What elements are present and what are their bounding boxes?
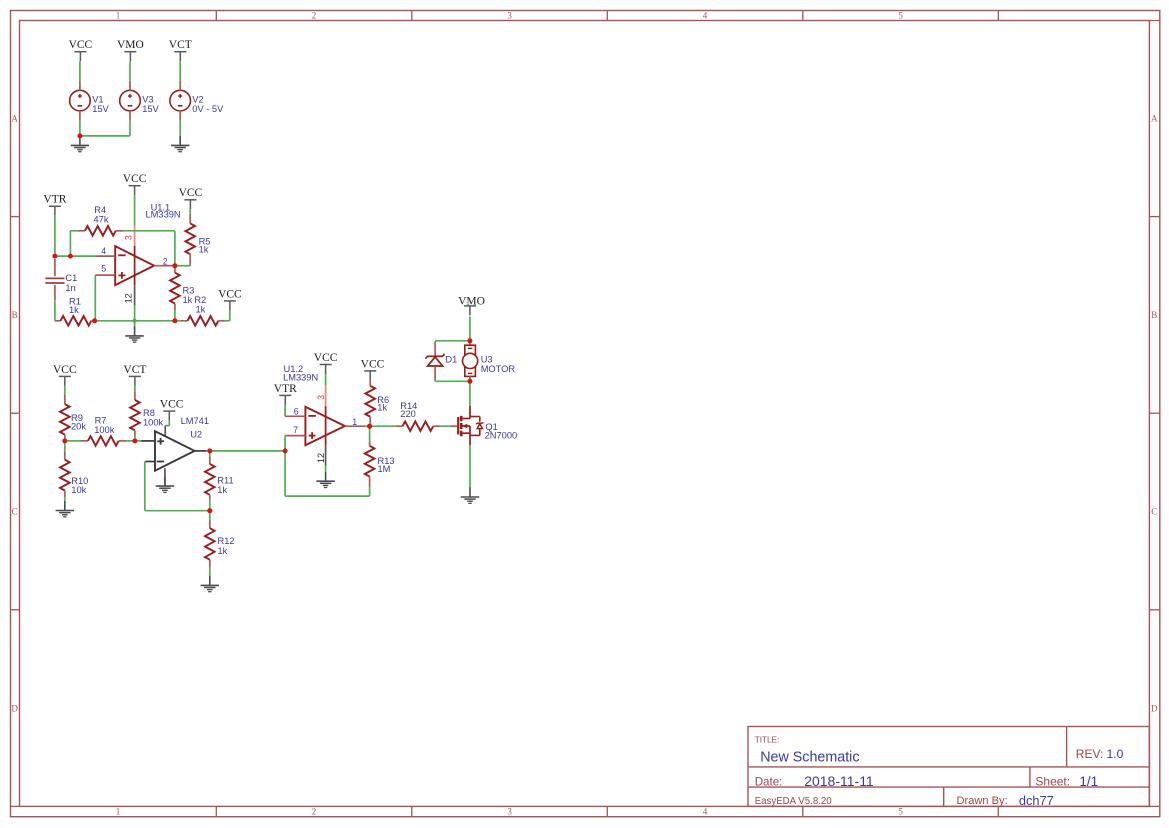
svg-text:1k: 1k bbox=[199, 245, 209, 255]
junction dot R3/R2 node bbox=[172, 318, 177, 323]
svg-text:2018-11-11: 2018-11-11 bbox=[804, 773, 874, 789]
svg-text:5: 5 bbox=[898, 11, 903, 21]
svg-text:dch77: dch77 bbox=[1019, 793, 1054, 808]
pin number 3 (U1.1) bbox=[123, 235, 133, 240]
junction dot motor bottom bbox=[467, 379, 472, 384]
net flag VCT (R8) bbox=[123, 364, 146, 386]
svg-text:Date:: Date: bbox=[755, 776, 783, 789]
svg-text:0V - 5V: 0V - 5V bbox=[192, 104, 224, 114]
svg-text:2: 2 bbox=[312, 11, 317, 21]
net flag VTR (U1.1 input) bbox=[43, 194, 66, 216]
U2 output stub bbox=[195, 450, 207, 452]
wire output node to R11 bbox=[209, 451, 211, 456]
pin number 3 (U1.2) bbox=[316, 395, 326, 400]
resistor R1 bbox=[55, 316, 94, 326]
junction dot pin7/U2out bbox=[283, 448, 288, 453]
wire VTR down bbox=[54, 216, 56, 256]
wire Q1 source to ground bbox=[469, 445, 471, 487]
svg-text:100k: 100k bbox=[94, 425, 115, 435]
label U1.2 LM339N bbox=[283, 364, 318, 382]
svg-text:3: 3 bbox=[507, 11, 512, 21]
op-amp U1.1 pin 3 stub bbox=[134, 226, 136, 246]
svg-text:VCC: VCC bbox=[123, 173, 147, 185]
ground under R10 bbox=[56, 501, 74, 517]
svg-text:7: 7 bbox=[293, 425, 298, 435]
junction dot R1/pin5 node bbox=[92, 318, 97, 323]
wire U2 feedback down bbox=[144, 462, 146, 511]
net flag VCC (R5) bbox=[179, 187, 203, 209]
label R13 1M bbox=[378, 456, 395, 474]
wire R9 to node bbox=[64, 438, 66, 441]
label Q1 2N7000 bbox=[485, 422, 518, 441]
label U1.1 LM339N bbox=[146, 203, 181, 220]
svg-text:47k: 47k bbox=[94, 214, 109, 224]
U2 non-inverting input stub bbox=[142, 440, 156, 442]
wire pin1 to node bbox=[365, 425, 369, 427]
svg-text:1/1: 1/1 bbox=[1079, 774, 1098, 789]
ground under U1.2 bbox=[316, 472, 334, 488]
op-amp U2 LM741 bbox=[155, 431, 195, 471]
pin 6 stub (U1.2 inverting) bbox=[285, 415, 305, 417]
svg-text:VCC: VCC bbox=[314, 352, 338, 364]
svg-text:15V: 15V bbox=[92, 104, 109, 114]
wire R10 to ground bbox=[64, 497, 66, 501]
pin 1 stub (U1.2 output) bbox=[345, 425, 365, 427]
svg-text:20k: 20k bbox=[71, 422, 86, 432]
svg-text:100k: 100k bbox=[143, 417, 164, 427]
svg-text:R12: R12 bbox=[218, 536, 235, 546]
wire junction down to loop bbox=[284, 451, 286, 496]
svg-text:3: 3 bbox=[123, 235, 133, 240]
label R8 100k bbox=[143, 408, 164, 427]
svg-text:VTR: VTR bbox=[43, 194, 66, 206]
junction dot R11/R12 node bbox=[207, 508, 212, 513]
resistor R12 bbox=[205, 520, 215, 568]
label U3 MOTOR bbox=[481, 354, 516, 374]
svg-text:New Schematic: New Schematic bbox=[760, 749, 859, 765]
pin number 12 (U1.2) bbox=[316, 453, 326, 463]
pin number 1 (U1.2) bbox=[352, 417, 357, 427]
wire output to R5 bbox=[175, 265, 190, 267]
svg-text:VCC: VCC bbox=[53, 364, 77, 376]
wire VCC to pin 3 (U1.2) bbox=[325, 374, 327, 385]
wire R4 left branch bbox=[70, 231, 78, 256]
svg-text:1k: 1k bbox=[217, 485, 227, 495]
svg-text:D: D bbox=[11, 703, 18, 713]
svg-text:D: D bbox=[1151, 703, 1158, 713]
svg-text:VCC: VCC bbox=[218, 288, 242, 300]
svg-text:1: 1 bbox=[352, 417, 357, 427]
label V1 15V bbox=[92, 95, 109, 114]
svg-text:3: 3 bbox=[316, 395, 326, 400]
label R6 1k bbox=[377, 395, 389, 413]
wire pin 7 to junction bbox=[284, 436, 286, 451]
label V3 15V bbox=[142, 95, 159, 114]
wire VCC to R9 bbox=[64, 386, 66, 395]
wire R12 to ground bbox=[209, 568, 211, 576]
label R11 1k bbox=[217, 476, 233, 496]
junction dot V1 ground node bbox=[77, 133, 82, 138]
ground under U2 bbox=[156, 477, 174, 493]
wire U2 output to U1.2 bbox=[207, 450, 286, 452]
resistor R10 bbox=[60, 451, 70, 497]
wire pin 5 down bbox=[94, 275, 96, 321]
resistor R9 bbox=[60, 395, 70, 438]
wire R11 to node bbox=[209, 500, 211, 511]
wire feedback to R11/R12 node bbox=[145, 510, 210, 512]
resistor R4 bbox=[78, 226, 123, 236]
svg-text:LM741: LM741 bbox=[181, 416, 209, 426]
wire VMO down bbox=[469, 317, 471, 341]
wire R7 to U2 input node bbox=[126, 440, 141, 442]
label R14 220 bbox=[400, 401, 417, 419]
svg-text:A: A bbox=[11, 114, 18, 124]
label C1 1n bbox=[65, 273, 77, 293]
svg-text:1k: 1k bbox=[69, 305, 79, 315]
label R10 10k bbox=[71, 476, 88, 495]
wire loop bottom bbox=[285, 495, 370, 497]
svg-text:R11: R11 bbox=[217, 476, 233, 486]
resistor R8 bbox=[130, 391, 140, 437]
svg-text:Drawn By:: Drawn By: bbox=[957, 795, 1008, 807]
svg-text:U3: U3 bbox=[481, 354, 493, 364]
wire node to R12 bbox=[209, 511, 211, 520]
net flag VMO (V3) bbox=[117, 39, 144, 61]
svg-text:R3: R3 bbox=[183, 285, 195, 295]
U2 inverting input stub bbox=[145, 461, 155, 463]
label R7 100k bbox=[94, 416, 115, 435]
ground under Q1 bbox=[461, 488, 479, 504]
pin 12 stub (U1.2) bbox=[325, 445, 327, 466]
pin number 7 (U1.2) bbox=[293, 425, 298, 435]
label R3 1k bbox=[183, 285, 195, 305]
svg-text:REV:: REV: bbox=[1076, 747, 1104, 761]
junction (green) ground net crossing bbox=[133, 319, 137, 323]
wire pin 12 to ground bbox=[134, 306, 136, 327]
net flag VCC (R6) bbox=[361, 358, 385, 380]
wire R8 to node bbox=[134, 437, 136, 441]
wire VTR to pin 6 bbox=[284, 405, 286, 416]
svg-text:VCC: VCC bbox=[179, 187, 203, 199]
net flag VCC (V1) bbox=[69, 39, 93, 61]
wire R4 to output node bbox=[123, 231, 175, 266]
svg-text:1k: 1k bbox=[196, 304, 206, 314]
junction dot node VTR/C1 bbox=[52, 254, 57, 259]
wire top rail to D1 bbox=[435, 340, 470, 342]
svg-text:B: B bbox=[12, 310, 18, 320]
svg-text:A: A bbox=[1151, 114, 1158, 124]
svg-text:C1: C1 bbox=[65, 273, 77, 283]
pin number 6 (U1.2) bbox=[294, 407, 299, 417]
wire bottom ground rail bbox=[95, 320, 181, 322]
label LM741 U2 bbox=[181, 416, 209, 440]
wire input node bbox=[55, 255, 95, 257]
svg-text:1k: 1k bbox=[377, 403, 387, 413]
pin number 5 (U1.1) bbox=[101, 263, 106, 273]
junction dot R9/R10/R7 node bbox=[62, 438, 67, 443]
svg-text:1.0: 1.0 bbox=[1107, 747, 1124, 761]
motor U3 bbox=[463, 341, 478, 382]
svg-text:U2: U2 bbox=[190, 430, 202, 440]
wire VCC to R5 bbox=[189, 209, 191, 214]
wire VMO flag to V3 bbox=[129, 61, 131, 80]
net flag VCC (R2) bbox=[218, 288, 242, 310]
wire VCT flag to V2 bbox=[179, 61, 181, 80]
voltage source V2 bbox=[170, 81, 191, 121]
label R4 47k bbox=[94, 205, 109, 224]
svg-text:4: 4 bbox=[101, 246, 106, 256]
svg-text:VMO: VMO bbox=[117, 39, 144, 51]
svg-text:1: 1 bbox=[116, 807, 121, 817]
resistor R5 bbox=[185, 214, 195, 266]
wire pin 12 to ground (U1.2) bbox=[325, 466, 327, 472]
svg-text:EasyEDA V5.8.20: EasyEDA V5.8.20 bbox=[755, 796, 833, 807]
label R9 20k bbox=[71, 413, 86, 432]
svg-text:2: 2 bbox=[163, 256, 168, 266]
net flag VCT (V2) bbox=[169, 39, 192, 61]
net flag VCC (R9) bbox=[53, 364, 77, 386]
pin 7 stub (U1.2 non-inverting) bbox=[285, 435, 305, 437]
U2 power pin bbox=[164, 426, 166, 436]
junction dot U1.1 output bbox=[172, 263, 177, 268]
svg-text:VCC: VCC bbox=[361, 358, 385, 370]
net flag VCC (U2 power) bbox=[160, 399, 184, 421]
pin number 12 (U1.1) bbox=[123, 293, 133, 303]
pin number 4 (U1.1) bbox=[101, 246, 106, 256]
svg-text:VCT: VCT bbox=[123, 364, 146, 376]
svg-text:VCC: VCC bbox=[160, 399, 184, 411]
net flag VCC (U1.2 power) bbox=[314, 352, 338, 374]
op-amp U1.1 power rail through symbol bbox=[134, 246, 136, 285]
wire R3 to bottom rail bbox=[174, 310, 176, 321]
voltage source V3 bbox=[120, 81, 141, 121]
svg-text:220: 220 bbox=[400, 409, 416, 419]
pin 5 stub (U1.1 non-inverting) bbox=[95, 274, 115, 276]
svg-text:D1: D1 bbox=[445, 354, 457, 364]
wire node to R10 bbox=[64, 441, 66, 451]
resistor R3 bbox=[170, 266, 180, 310]
wire R2 to VCC bbox=[225, 310, 230, 320]
svg-text:1n: 1n bbox=[65, 283, 75, 293]
svg-text:5: 5 bbox=[101, 263, 106, 273]
label R2 1k bbox=[194, 295, 206, 315]
pin 2 stub (U1.1 output) bbox=[154, 265, 175, 267]
wire VCC flag to V1 bbox=[79, 61, 81, 80]
op-amp U1.2 pin 3 stub bbox=[325, 385, 327, 406]
svg-text:6: 6 bbox=[294, 407, 299, 417]
svg-text:LM339N: LM339N bbox=[283, 372, 318, 382]
pin number 2 (U1.1) bbox=[163, 256, 168, 266]
svg-text:R2: R2 bbox=[194, 295, 206, 305]
wire V3 to V1 ground node bbox=[79, 135, 130, 137]
svg-text:4: 4 bbox=[703, 807, 708, 817]
svg-text:VTR: VTR bbox=[274, 383, 297, 395]
svg-text:VCT: VCT bbox=[169, 39, 192, 51]
svg-text:VMO: VMO bbox=[458, 295, 485, 307]
svg-text:VCC: VCC bbox=[69, 39, 93, 51]
junction dot R8/R7/U2+ node bbox=[132, 438, 137, 443]
wire VCC to U2 power pin bbox=[165, 421, 169, 426]
svg-text:TITLE:: TITLE: bbox=[755, 736, 780, 745]
U2 ground pin bbox=[164, 468, 166, 486]
net flag VTR (U1.2) bbox=[274, 383, 297, 405]
ground under R12 bbox=[201, 576, 219, 592]
transistor Q1 2N7000 bbox=[450, 406, 483, 446]
svg-text:2N7000: 2N7000 bbox=[485, 430, 518, 440]
svg-text:12: 12 bbox=[123, 293, 133, 303]
resistor R6 bbox=[365, 380, 375, 426]
op-amp U1.1 LM339N bbox=[115, 246, 154, 285]
wire loop up to R13 bbox=[369, 486, 371, 496]
svg-text:LM339N: LM339N bbox=[146, 210, 181, 220]
resistor R14 bbox=[395, 421, 440, 431]
wire V3 down bbox=[129, 121, 131, 136]
label V2 0V - 5V bbox=[192, 95, 224, 114]
op-amp U1.2 power rail through symbol bbox=[325, 406, 327, 445]
svg-text:MOTOR: MOTOR bbox=[481, 364, 516, 374]
wire motor bottom to Q1 drain bbox=[469, 381, 471, 406]
svg-text:Sheet:: Sheet: bbox=[1035, 775, 1070, 789]
junction dot U1.2 output node bbox=[367, 424, 372, 429]
net flag VCC (U1.1 power) bbox=[123, 173, 147, 195]
ground under V1 bbox=[71, 136, 89, 152]
svg-text:10k: 10k bbox=[71, 485, 86, 495]
resistor R2 bbox=[181, 316, 225, 326]
ground under V2 bbox=[171, 136, 189, 152]
svg-text:C: C bbox=[12, 507, 18, 517]
voltage source V1 bbox=[70, 81, 91, 121]
label R5 1k bbox=[199, 236, 211, 254]
wire C1 to R1 bbox=[54, 300, 57, 321]
svg-text:1k: 1k bbox=[218, 546, 228, 556]
svg-text:15V: 15V bbox=[142, 104, 159, 114]
wire node to R13 bbox=[369, 426, 371, 441]
wire node to R14 bbox=[370, 425, 396, 427]
label R12 1k bbox=[218, 536, 235, 556]
resistor R11 bbox=[205, 456, 215, 500]
junction dot U2 output bbox=[207, 448, 212, 453]
net flag VMO (motor) bbox=[458, 295, 485, 315]
wire VCT to R8 bbox=[134, 386, 136, 391]
svg-text:B: B bbox=[1151, 310, 1157, 320]
junction dot R4 branch bbox=[68, 254, 73, 259]
svg-text:3: 3 bbox=[507, 807, 512, 817]
capacitor C1 bbox=[45, 259, 64, 300]
label D1 bbox=[445, 354, 457, 364]
wire D1 to bottom rail bbox=[435, 380, 470, 381]
diode D1 (zener) bbox=[426, 342, 444, 381]
pin 12 stub (U1.1) bbox=[134, 285, 136, 306]
title block bbox=[748, 727, 1149, 809]
svg-text:1M: 1M bbox=[378, 464, 391, 474]
wire V2 to ground bbox=[179, 121, 181, 136]
resistor R13 bbox=[365, 441, 375, 486]
pin 4 stub (U1.1 inverting) bbox=[95, 255, 115, 257]
wire node to R7 bbox=[65, 440, 81, 442]
resistor R7 bbox=[80, 436, 126, 446]
svg-text:C: C bbox=[1151, 507, 1157, 517]
svg-text:1k: 1k bbox=[183, 295, 193, 305]
op-amp U1.2 LM339N bbox=[305, 407, 344, 445]
svg-text:2: 2 bbox=[312, 807, 317, 817]
wire R14 to Q1 gate bbox=[440, 425, 450, 427]
wire VCC to pin 3 bbox=[134, 195, 136, 225]
label R1 1k bbox=[69, 297, 81, 315]
svg-text:12: 12 bbox=[316, 453, 326, 463]
wire V1 to ground bbox=[79, 121, 81, 136]
svg-text:5: 5 bbox=[898, 807, 903, 817]
junction dot motor top bbox=[467, 338, 472, 343]
ground under U1.1 bbox=[125, 326, 143, 342]
svg-text:4: 4 bbox=[703, 11, 708, 21]
svg-text:1: 1 bbox=[116, 11, 121, 21]
